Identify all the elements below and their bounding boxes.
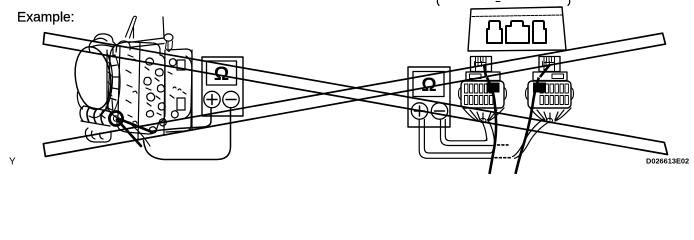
svg-text:Example:: Example: (17, 10, 75, 25)
svg-text:D026613E02: D026613E02 (646, 157, 689, 166)
svg-text:Y: Y (9, 157, 16, 168)
